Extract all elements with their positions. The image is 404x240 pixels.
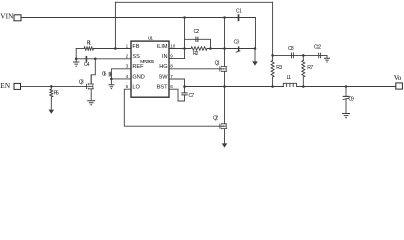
svg-text:IN: IN: [162, 54, 168, 60]
svg-text:5: 5: [126, 84, 129, 89]
svg-text:U1: U1: [148, 36, 154, 42]
svg-text:HG: HG: [159, 64, 167, 70]
svg-text:LO: LO: [132, 85, 140, 91]
svg-text:ILIM: ILIM: [157, 44, 168, 50]
svg-text:SW: SW: [159, 74, 169, 80]
svg-text:SS: SS: [132, 54, 140, 60]
svg-text:VIN: VIN: [0, 13, 14, 21]
svg-text:C12: C12: [314, 44, 321, 50]
svg-text:R5: R5: [54, 90, 59, 96]
svg-text:R2: R2: [193, 51, 199, 57]
svg-text:C2: C2: [194, 29, 200, 35]
svg-text:R3: R3: [276, 65, 282, 71]
svg-text:10: 10: [170, 43, 176, 48]
svg-text:C9: C9: [348, 96, 354, 102]
svg-text:FB: FB: [132, 44, 139, 50]
svg-text:Q1: Q1: [215, 61, 220, 67]
svg-text:C3: C3: [234, 40, 240, 46]
svg-text:3: 3: [126, 64, 129, 69]
svg-text:8: 8: [170, 64, 173, 69]
svg-text:9: 9: [170, 54, 173, 59]
svg-text:7: 7: [170, 74, 173, 79]
svg-text:6: 6: [170, 84, 173, 89]
svg-text:Q2: Q2: [213, 116, 218, 122]
svg-text:2: 2: [126, 54, 129, 59]
svg-text:C4: C4: [84, 62, 90, 68]
svg-text:C7: C7: [189, 93, 195, 99]
svg-text:MP2905: MP2905: [140, 59, 154, 64]
svg-text:C1: C1: [236, 8, 242, 14]
svg-text:C8: C8: [288, 46, 294, 52]
svg-text:REF: REF: [132, 64, 144, 70]
svg-text:EN: EN: [0, 82, 11, 90]
svg-text:L1: L1: [287, 75, 292, 81]
svg-text:Q3: Q3: [79, 80, 84, 86]
svg-text:Vo: Vo: [394, 74, 402, 82]
svg-text:R1: R1: [87, 40, 92, 46]
svg-text:C6: C6: [102, 72, 107, 78]
svg-text:4: 4: [126, 74, 129, 79]
svg-text:BST: BST: [157, 85, 168, 91]
svg-text:GND: GND: [132, 74, 144, 80]
svg-text:1: 1: [126, 43, 129, 48]
svg-text:R7: R7: [307, 65, 313, 71]
